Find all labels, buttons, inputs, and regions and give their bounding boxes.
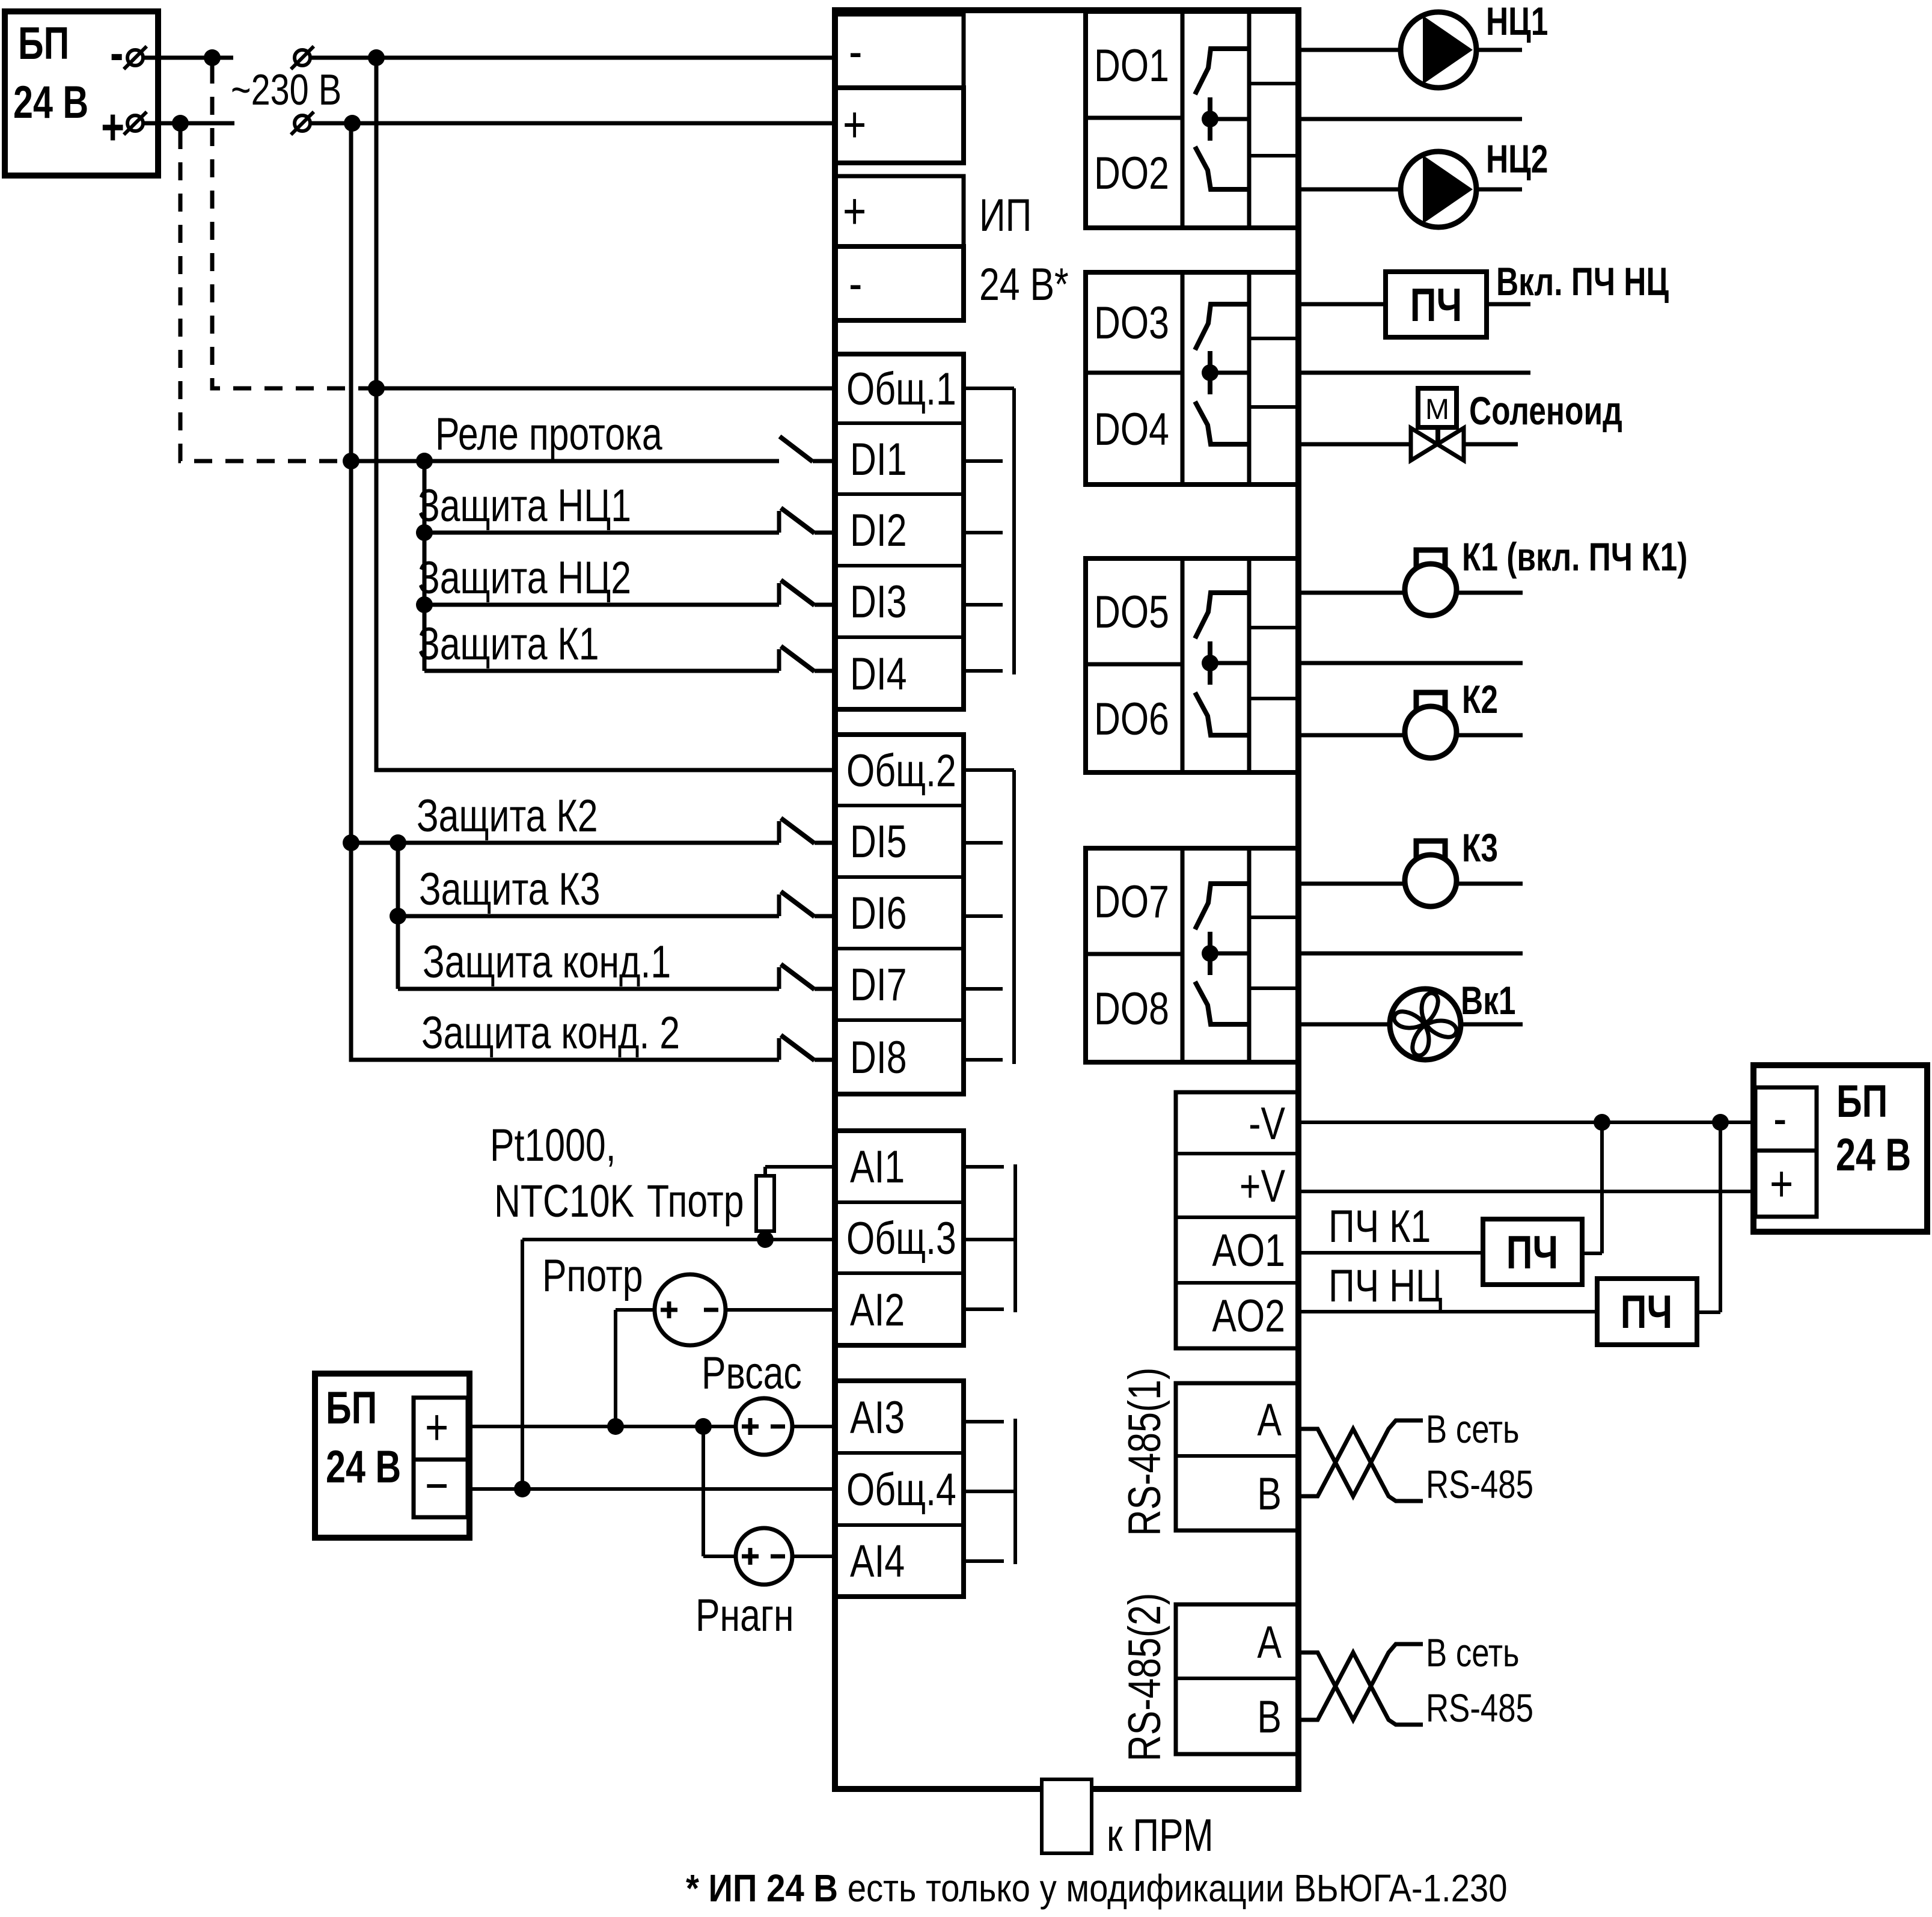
svg-text:A: A [1257,1617,1282,1668]
svg-text:+: + [843,97,866,153]
junction dot DI6/rail [390,908,406,925]
relay output block DO7/DO8 [1086,848,1298,1062]
svg-text:DI2: DI2 [850,505,907,556]
box ПЧ (К1 drive) [1483,1219,1582,1285]
terminal - (ИП out) [835,246,964,320]
switch Защита конд. 2 (DI8) [777,1038,781,1060]
svg-text:К2: К2 [1462,677,1498,722]
screw terminal + [127,115,143,131]
wire DI4 [424,669,779,673]
connector к ПРМ [1042,1779,1092,1853]
wire DO4 to соленоид [1296,442,1411,447]
wire DO8 NC to Вк1 [1296,1023,1390,1027]
svg-text:НЦ1: НЦ1 [1486,0,1548,43]
contactor coil К3 [1405,855,1457,907]
svg-text:* ИП 24 В есть только у модифи: * ИП 24 В есть только у модификации ВЬЮГ… [686,1867,1508,1910]
terminal group AI3/Общ.4/AI4 [835,1381,964,1597]
rail from + wire to DI8 [351,123,779,1060]
svg-text:-: - [849,255,862,312]
wire DO3 to ПЧ [1296,302,1386,307]
wire Общ.1 [376,387,835,391]
box ПЧ (НЦ drive) [1597,1279,1697,1345]
wire ПЧ1 to -V [1582,1252,1602,1255]
svg-text:Реле протока: Реле протока [435,409,662,460]
switch Защита К3 (DI6) [777,894,781,916]
svg-text:+V: +V [1240,1161,1285,1212]
junction dot (dashed tap on - wire) [204,49,221,66]
rail from - wire to Общ.2 [376,58,835,770]
svg-text:Защита НЦ1: Защита НЦ1 [418,480,631,531]
terminal group -V/+V/AO1/AO2 [1176,1092,1298,1348]
wire DO7 NO to К3 [1296,882,1405,886]
svg-text:Тпотр: Тпотр [647,1176,744,1227]
junction dot DI1 tap [343,453,359,469]
junction dot DI3/rail [416,596,433,613]
svg-text:Общ.4: Общ.4 [846,1464,956,1515]
terminal group AI1/Общ.3/AI2 [835,1131,964,1345]
wire +V [1296,1190,1753,1193]
wire DO1 common [1296,117,1522,121]
junction dot (dashed tap on + wire) [172,115,189,132]
wire -V [1296,1121,1753,1124]
svg-text:+: + [1770,1156,1793,1212]
junction dot (rail x626 on - wire) [368,49,385,66]
svg-text:Рпотр: Рпотр [542,1250,643,1301]
svg-text:DI1: DI1 [850,434,907,485]
svg-text:B: B [1257,1692,1282,1743]
label RS-485(1) [1119,1368,1170,1536]
wire from Вк1 [1460,1023,1523,1027]
svg-text:Общ.1: Общ.1 [846,364,956,415]
svg-text:−: − [425,1458,448,1514]
screw terminal + (right) [295,115,310,131]
rail Общ.3 to Общ.4 [521,1240,524,1489]
terminal group Общ.2/DI5-DI8 [835,735,964,1094]
svg-text:DO3: DO3 [1094,298,1169,349]
svg-text:DI4: DI4 [850,649,907,700]
wire from соленоид [1464,442,1518,447]
wire AO1 to ПЧ [1296,1251,1483,1255]
svg-text:24 В: 24 В [13,77,88,128]
terminal group RS-485(2) A/B [1176,1604,1298,1754]
pump НЦ1 [1401,12,1476,88]
wire from К1 [1456,591,1523,595]
dashed wire - to Общ.1 [212,66,369,388]
label RS-485(2) [1119,1593,1170,1761]
svg-text:ИП: ИП [979,190,1032,241]
pump НЦ2 [1401,151,1476,227]
junction dot DI2/rail [416,524,433,541]
twisted pair RS-485(1) [1300,1420,1423,1496]
svg-text:AO1: AO1 [1212,1225,1285,1276]
svg-text:Общ.2: Общ.2 [846,745,956,796]
twisted pair RS-485(2) [1300,1644,1423,1720]
svg-text:Защита НЦ2: Защита НЦ2 [418,552,631,604]
terminal - (power in) [835,14,964,88]
switch Реле протока (DI1) [780,436,813,462]
terminal + (ИП out) [835,176,964,246]
relay output block DO5/DO6 [1086,558,1298,772]
svg-text:AI1: AI1 [850,1142,905,1193]
svg-text:DO2: DO2 [1094,148,1169,199]
wire DO6 NC to К2 [1296,733,1405,738]
junction dot DI5 tap [343,834,359,851]
svg-text:-: - [110,25,123,82]
svg-text:A: A [1257,1395,1282,1446]
svg-text:К3: К3 [1462,825,1498,870]
svg-text:AI4: AI4 [850,1536,905,1587]
main controller block outline [835,10,1298,1789]
svg-text:Рвсас: Рвсас [702,1348,802,1399]
svg-text:ПЧ НЦ: ПЧ НЦ [1328,1261,1443,1312]
wire DO1 NO to НЦ1 [1296,48,1402,52]
power supply БП 24 В (bottom-left) [315,1374,469,1538]
dashed wire + to DI1 common [180,131,344,461]
wire -230V segment A [143,56,233,60]
bracket Общ.1-DI4 (internal common) [964,387,1014,390]
svg-text:Общ.3: Общ.3 [846,1213,956,1264]
junction dot ПЧ1/-V [1594,1114,1610,1131]
svg-text:-: - [1773,1090,1787,1147]
svg-text:AI2: AI2 [850,1285,905,1336]
wire DO2 NC to НЦ2 [1296,188,1402,192]
svg-text:+: + [101,99,124,156]
pressure sensor Рнагн [736,1528,792,1585]
bracket Общ.2-DI8 (internal common) [964,768,1014,772]
wire DI5 [351,841,779,845]
svg-text:БП: БП [326,1383,377,1434]
power supply БП 24 В (right) [1753,1065,1927,1232]
svg-text:DO7: DO7 [1094,876,1169,928]
svg-text:Защита К3: Защита К3 [419,864,601,915]
svg-text:БП: БП [1836,1076,1888,1127]
fan Вк1 [1390,989,1461,1060]
relay output block DO3/DO4 [1086,272,1298,485]
junction dot ПЧ2/-V [1712,1114,1729,1131]
svg-text:Защита конд.1: Защита конд.1 [423,937,671,988]
svg-text:Вк1: Вк1 [1461,978,1516,1023]
switch Защита К2 (DI5) [777,821,781,843]
junction dot DI1/rail [416,453,433,469]
svg-text:Защита К1: Защита К1 [418,619,599,670]
svg-text:ПЧ: ПЧ [1410,279,1462,331]
svg-text:DO5: DO5 [1094,587,1169,638]
bracket AI3-AI4 (internal common) [964,1420,1004,1423]
svg-text:AO2: AO2 [1212,1291,1285,1342]
screw terminal - (right) [295,50,310,66]
svg-text:ПЧ К1: ПЧ К1 [1328,1201,1431,1252]
svg-text:БП: БП [18,18,69,69]
wire AO2 to ПЧ [1296,1310,1597,1313]
svg-text:К1 (вкл. ПЧ К1): К1 (вкл. ПЧ К1) [1462,534,1687,579]
svg-text:к ПРМ: к ПРМ [1107,1810,1214,1861]
svg-text:ПЧ: ПЧ [1621,1286,1672,1338]
junction dot (rail x584 on + wire) [344,115,361,132]
wire -230V segment B [310,56,835,60]
svg-text:DO4: DO4 [1094,404,1169,455]
svg-text:RS-485(2): RS-485(2) [1119,1593,1170,1761]
wire from ПЧ [1487,302,1530,307]
wire +230V segment A [143,121,234,126]
junction dot Рнагн tap [695,1418,712,1435]
wire БП+ to Рвсас/AI3 [468,1425,736,1428]
svg-text:Соленоид: Соленоид [1469,388,1622,433]
wire БП- to Общ.4 [468,1487,835,1491]
svg-text:AI3: AI3 [850,1392,905,1443]
svg-text:DI8: DI8 [850,1032,907,1083]
svg-text:DI5: DI5 [850,816,907,867]
junction dot resistor/Общ.3 [757,1231,774,1248]
contactor coil К2 [1405,706,1457,758]
svg-text:24 В: 24 В [1836,1130,1911,1181]
svg-text:DO6: DO6 [1094,694,1169,745]
wire DI3 [424,603,779,607]
svg-text:B: B [1257,1469,1282,1520]
bracket AI1-AI2 (internal common) [964,1165,1004,1169]
svg-text:Pt1000,: Pt1000, [490,1120,616,1171]
terminal group Общ.1/DI1-DI4 [835,354,964,709]
svg-text:RS-485(1): RS-485(1) [1119,1368,1170,1536]
pressure sensor Рвсас [736,1398,792,1455]
contactor coil К1 [1405,564,1457,616]
wire DI6 [398,914,779,919]
svg-text:-V: -V [1249,1098,1285,1149]
svg-text:Защита конд. 2: Защита конд. 2 [421,1007,680,1059]
wire DO7 common [1296,952,1523,956]
svg-text:24 В*: 24 В* [979,259,1069,310]
svg-text:DI3: DI3 [850,576,907,628]
svg-text:DO8: DO8 [1094,983,1169,1035]
svg-text:ПЧ: ПЧ [1506,1226,1558,1279]
junction dot Рпотр tap [607,1418,624,1435]
wire from К3 [1456,882,1523,886]
switch Защита конд.1 (DI7) [777,967,781,989]
pressure sensor Рпотр [655,1274,726,1345]
wire DI7 [398,987,779,991]
svg-text:+: + [843,183,866,240]
svg-text:Защита К2: Защита К2 [417,790,598,842]
wire DO3/DO4 common [1296,371,1530,375]
switch Защита К1 (DI4) [777,649,781,671]
wire DO5 NO to К1 [1296,591,1405,595]
svg-text:НЦ2: НЦ2 [1486,136,1548,182]
power supply БП 24 В (top-left) [5,11,158,176]
solenoid valve (Соленоид) [1418,388,1457,427]
svg-text:DO1: DO1 [1094,40,1169,91]
svg-text:RS-485: RS-485 [1426,1462,1533,1506]
wire from НЦ2 [1475,188,1522,192]
wire Общ.3 [522,1238,835,1241]
box ПЧ (Вкл. ПЧ НЦ) [1386,272,1487,337]
svg-text:DI6: DI6 [850,888,907,939]
switch Защита НЦ1 (DI2) [777,511,781,533]
wire ПЧ2 to -V [1697,1310,1720,1314]
relay output block DO1/DO2 [1086,11,1298,228]
svg-text:RS-485: RS-485 [1426,1686,1533,1730]
svg-text:-: - [849,23,862,80]
junction dot DI5/rail [390,834,406,851]
junction dot Общ.3 rail/Общ.4 [514,1481,531,1497]
terminal group RS-485(1) A/B [1176,1383,1298,1530]
wire DI2 [424,531,779,535]
wire DI1 [351,459,779,463]
rail DI6-DI7 [396,843,400,989]
terminal + (power in) [835,88,964,163]
wire DO5 common [1296,661,1523,665]
svg-text:24 В: 24 В [326,1442,401,1493]
wire from НЦ1 [1475,48,1522,52]
rail DI2-DI4 [423,461,427,671]
svg-text:Вкл. ПЧ НЦ: Вкл. ПЧ НЦ [1496,259,1669,304]
svg-text:В сеть: В сеть [1426,1630,1520,1675]
junction dot Общ.1 tap [368,380,385,397]
svg-text:~230 В: ~230 В [231,66,341,114]
svg-text:М: М [1425,394,1449,426]
resistor Тпотр (Pt1000/NTC10K) [756,1176,774,1231]
svg-text:NTC10K: NTC10K [494,1176,634,1227]
wire +230V segment B [310,121,835,126]
screw terminal - [127,50,143,66]
svg-text:Рнагн: Рнагн [695,1590,794,1641]
svg-text:+: + [425,1399,448,1456]
wire from К2 [1456,733,1523,738]
switch Защита НЦ2 (DI3) [777,583,781,605]
svg-text:В сеть: В сеть [1426,1407,1520,1451]
svg-text:DI7: DI7 [850,959,907,1010]
